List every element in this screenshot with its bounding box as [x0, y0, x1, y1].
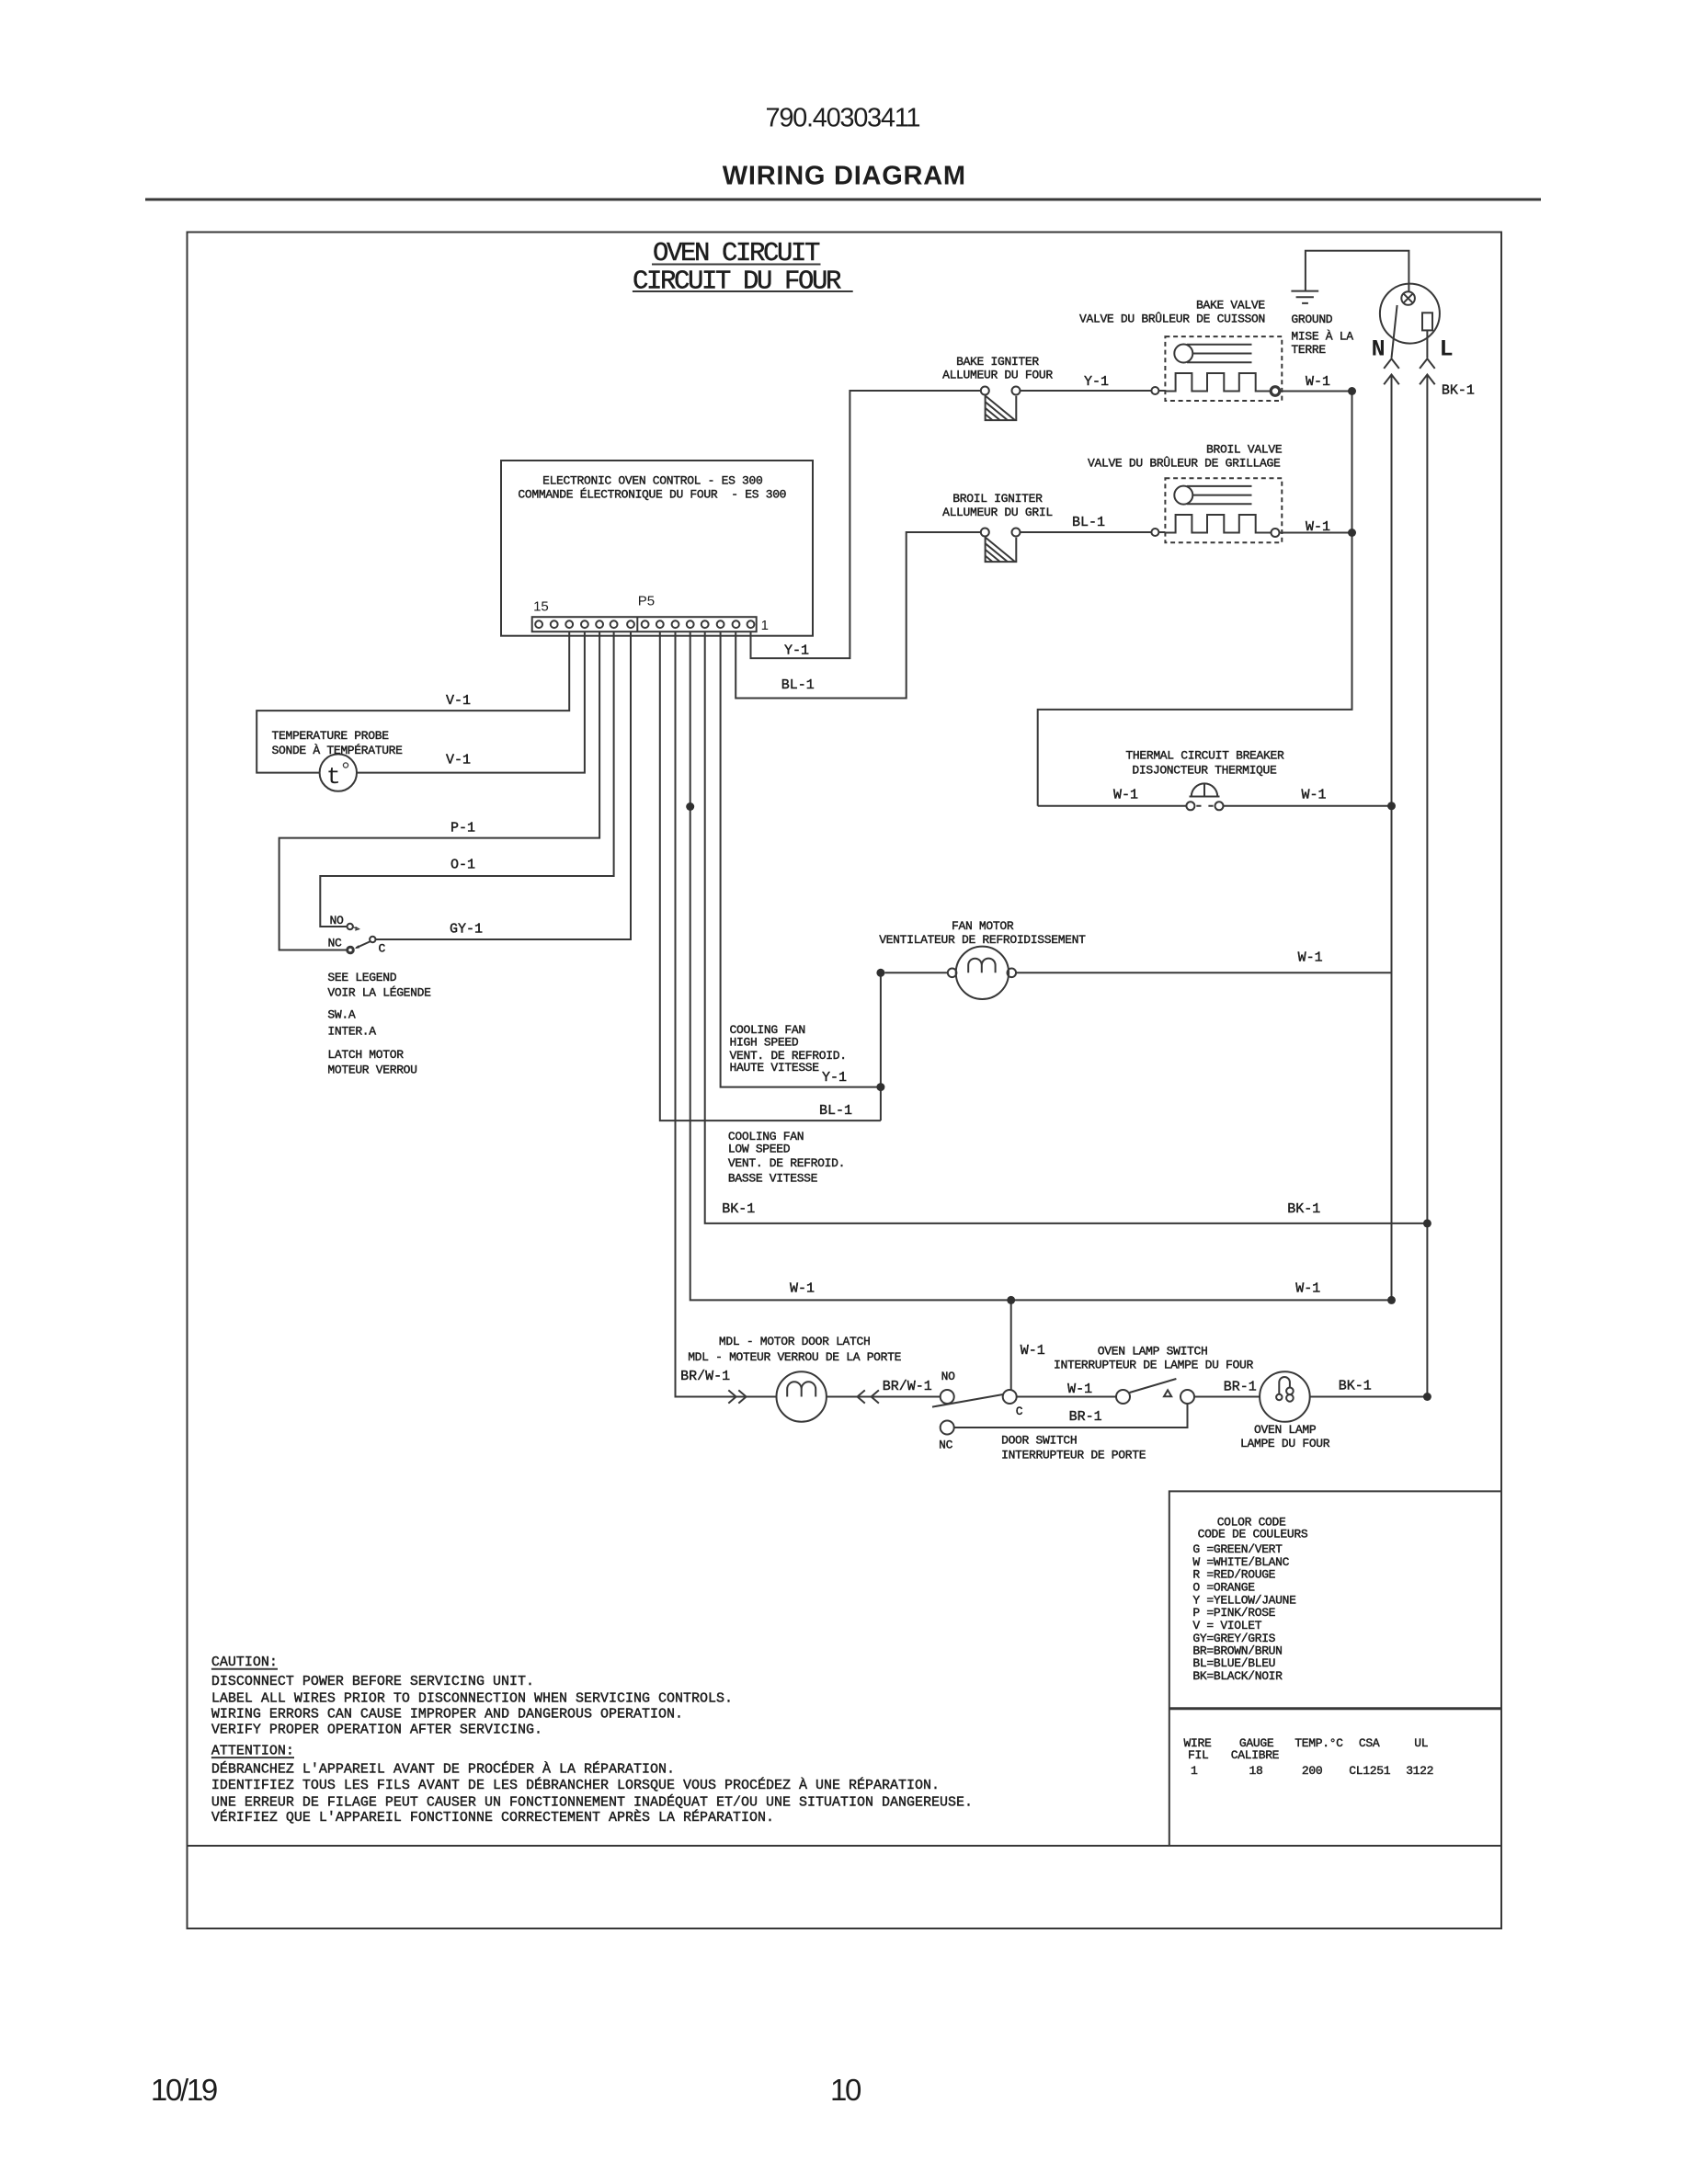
- svg-text:GROUND: GROUND: [1291, 313, 1332, 326]
- svg-text:DISCONNECT POWER BEFORE SERVIC: DISCONNECT POWER BEFORE SERVICING UNIT.: [211, 1674, 534, 1689]
- svg-text:BL-1: BL-1: [819, 1103, 852, 1119]
- svg-text:C: C: [379, 942, 386, 956]
- svg-text:OVEN LAMP SWITCH: OVEN LAMP SWITCH: [1098, 1344, 1208, 1358]
- svg-text:THERMAL CIRCUIT BREAKER: THERMAL CIRCUIT BREAKER: [1125, 749, 1284, 763]
- svg-text:UL: UL: [1414, 1736, 1428, 1750]
- svg-text:VALVE DU BRÛLEUR DE GRILLAGE: VALVE DU BRÛLEUR DE GRILLAGE: [1088, 457, 1281, 471]
- svg-text:CSA: CSA: [1359, 1736, 1380, 1750]
- svg-text:SEE LEGEND: SEE LEGEND: [327, 971, 396, 984]
- svg-text:WIRING DIAGRAM: WIRING DIAGRAM: [723, 161, 966, 190]
- svg-text:W-1: W-1: [1302, 787, 1327, 802]
- svg-text:ALLUMEUR DU GRIL: ALLUMEUR DU GRIL: [942, 506, 1053, 519]
- svg-text:W-1: W-1: [1295, 1281, 1320, 1297]
- svg-text:V-1: V-1: [446, 693, 471, 709]
- svg-text:DOOR SWITCH: DOOR SWITCH: [1001, 1434, 1077, 1448]
- svg-text:OVEN LAMP: OVEN LAMP: [1254, 1423, 1317, 1437]
- svg-text:BR-1: BR-1: [1069, 1409, 1102, 1425]
- svg-text:FAN MOTOR: FAN MOTOR: [952, 919, 1014, 933]
- svg-text:DISJONCTEUR THERMIQUE: DISJONCTEUR THERMIQUE: [1132, 764, 1277, 778]
- svg-text:W-1: W-1: [1021, 1343, 1045, 1359]
- svg-text:LAMPE DU FOUR: LAMPE DU FOUR: [1240, 1437, 1330, 1450]
- svg-text:VOIR LA LÉGENDE: VOIR LA LÉGENDE: [327, 985, 431, 999]
- svg-text:DÉBRANCHEZ L'APPAREIL AVANT DE: DÉBRANCHEZ L'APPAREIL AVANT DE PROCÉDER …: [211, 1760, 675, 1777]
- svg-text:BK-1: BK-1: [1339, 1379, 1372, 1394]
- svg-text:BK=BLACK/NOIR: BK=BLACK/NOIR: [1192, 1669, 1283, 1683]
- svg-text:CL1251: CL1251: [1349, 1764, 1390, 1778]
- svg-text:INTERRUPTEUR DE LAMPE DU FOUR: INTERRUPTEUR DE LAMPE DU FOUR: [1054, 1358, 1253, 1371]
- svg-text:INTER.A: INTER.A: [327, 1025, 376, 1039]
- svg-text:N: N: [1372, 336, 1386, 362]
- svg-text:W-1: W-1: [1306, 519, 1330, 535]
- svg-text:MDL - MOTEUR VERROU DE LA PORT: MDL - MOTEUR VERROU DE LA PORTE: [688, 1350, 901, 1364]
- svg-text:BR-1: BR-1: [1224, 1380, 1257, 1395]
- svg-text:HAUTE VITESSE: HAUTE VITESSE: [730, 1061, 820, 1075]
- svg-text:10: 10: [830, 2073, 861, 2107]
- svg-text:ALLUMEUR DU FOUR: ALLUMEUR DU FOUR: [942, 369, 1053, 382]
- svg-text:W-1: W-1: [1298, 950, 1323, 966]
- svg-text:Y-1: Y-1: [784, 643, 809, 659]
- svg-text:NC: NC: [328, 937, 342, 950]
- svg-text:BAKE IGNITER: BAKE IGNITER: [956, 355, 1039, 369]
- svg-text:BROIL VALVE: BROIL VALVE: [1206, 443, 1283, 457]
- svg-text:R =RED/ROUGE: R =RED/ROUGE: [1192, 1568, 1275, 1582]
- svg-text:t: t: [326, 763, 341, 791]
- svg-text:V = VIOLET: V = VIOLET: [1192, 1619, 1261, 1632]
- svg-text:10/19: 10/19: [151, 2073, 217, 2107]
- svg-text:IDENTIFIEZ TOUS LES FILS AVANT: IDENTIFIEZ TOUS LES FILS AVANT DE LES DÉ…: [211, 1777, 940, 1793]
- svg-text:ELECTRONIC OVEN CONTROL - ES 3: ELECTRONIC OVEN CONTROL - ES 300: [542, 474, 762, 488]
- svg-text:P =PINK/ROSE: P =PINK/ROSE: [1192, 1606, 1275, 1620]
- svg-text:FIL: FIL: [1188, 1748, 1208, 1762]
- svg-text:MOTEUR VERROU: MOTEUR VERROU: [327, 1064, 416, 1077]
- svg-text:W-1: W-1: [1113, 787, 1138, 802]
- svg-text:VENTILATEUR DE REFROIDISSEMENT: VENTILATEUR DE REFROIDISSEMENT: [879, 933, 1086, 947]
- svg-text:BK-1: BK-1: [722, 1201, 755, 1217]
- svg-text:WIRING ERRORS CAN CAUSE IMPROP: WIRING ERRORS CAN CAUSE IMPROPER AND DAN…: [211, 1706, 683, 1722]
- svg-text:UNE ERREUR DE FILAGE PEUT CAUS: UNE ERREUR DE FILAGE PEUT CAUSER UN FONC…: [211, 1793, 973, 1810]
- svg-text:CAUTION:: CAUTION:: [211, 1655, 278, 1670]
- svg-text:18: 18: [1249, 1764, 1263, 1778]
- svg-text:1: 1: [761, 618, 769, 633]
- svg-text:C: C: [1016, 1405, 1023, 1418]
- svg-text:G =GREEN/VERT: G =GREEN/VERT: [1192, 1542, 1283, 1556]
- svg-text:INTERRUPTEUR DE PORTE: INTERRUPTEUR DE PORTE: [1001, 1449, 1146, 1462]
- svg-text:BR/W-1: BR/W-1: [883, 1379, 932, 1394]
- svg-text:V-1: V-1: [446, 752, 471, 768]
- svg-text:GY-1: GY-1: [450, 922, 483, 938]
- svg-text:BK-1: BK-1: [1287, 1201, 1320, 1217]
- svg-text:TEMPERATURE PROBE: TEMPERATURE PROBE: [272, 729, 390, 743]
- svg-text:200: 200: [1302, 1764, 1322, 1778]
- svg-text:W-1: W-1: [790, 1281, 815, 1297]
- svg-text:COMMANDE ÉLECTRONIQUE DU FOUR: COMMANDE ÉLECTRONIQUE DU FOUR - ES 300: [518, 488, 786, 502]
- svg-text:CIRCUIT DU FOUR: CIRCUIT DU FOUR: [633, 267, 841, 297]
- svg-text:W-1: W-1: [1067, 1382, 1092, 1397]
- svg-text:P5: P5: [638, 594, 655, 609]
- svg-text:Y-1: Y-1: [1084, 374, 1109, 390]
- svg-text:NO: NO: [330, 914, 344, 927]
- svg-text:OVEN CIRCUIT: OVEN CIRCUIT: [653, 238, 820, 268]
- svg-text:LABEL ALL WIRES PRIOR TO DISCO: LABEL ALL WIRES PRIOR TO DISCONNECTION W…: [211, 1690, 733, 1706]
- svg-text:MDL - MOTOR DOOR LATCH: MDL - MOTOR DOOR LATCH: [719, 1335, 871, 1348]
- svg-text:15: 15: [533, 599, 549, 615]
- svg-text:VALVE DU BRÛLEUR DE CUISSON: VALVE DU BRÛLEUR DE CUISSON: [1079, 313, 1265, 326]
- svg-text:Y-1: Y-1: [822, 1070, 847, 1086]
- svg-text:CODE DE COULEURS: CODE DE COULEURS: [1198, 1528, 1308, 1541]
- svg-text:3122: 3122: [1406, 1764, 1433, 1778]
- svg-text:NO: NO: [941, 1370, 955, 1383]
- svg-text:P-1: P-1: [451, 821, 475, 836]
- svg-text:VENT. DE REFROID.: VENT. DE REFROID.: [728, 1156, 845, 1170]
- svg-text:TEMP.°C: TEMP.°C: [1295, 1736, 1343, 1750]
- svg-text:BR=BROWN/BRUN: BR=BROWN/BRUN: [1192, 1644, 1282, 1657]
- svg-text:VERIFY PROPER OPERATION AFTER: VERIFY PROPER OPERATION AFTER SERVICING.: [211, 1723, 542, 1738]
- svg-text:1: 1: [1191, 1764, 1198, 1778]
- svg-text:L: L: [1440, 336, 1454, 362]
- svg-text:LATCH MOTOR: LATCH MOTOR: [327, 1048, 404, 1062]
- svg-text:790.40303411: 790.40303411: [766, 103, 920, 132]
- svg-text:W-1: W-1: [1306, 374, 1330, 390]
- svg-text:SONDE À TEMPÉRATURE: SONDE À TEMPÉRATURE: [272, 744, 404, 757]
- svg-text:O-1: O-1: [451, 857, 475, 872]
- svg-text:SW.A: SW.A: [327, 1008, 355, 1022]
- svg-text:BROIL IGNITER: BROIL IGNITER: [952, 492, 1043, 506]
- svg-text:MISE À LA: MISE À LA: [1291, 330, 1353, 344]
- svg-text:LOW SPEED: LOW SPEED: [728, 1143, 791, 1156]
- svg-text:BL-1: BL-1: [1072, 515, 1105, 530]
- svg-text:NC: NC: [939, 1439, 952, 1452]
- svg-text:VÉRIFIEZ QUE L'APPAREIL FONCTI: VÉRIFIEZ QUE L'APPAREIL FONCTIONNE CORRE…: [211, 1809, 774, 1826]
- svg-text:BASSE VITESSE: BASSE VITESSE: [728, 1171, 818, 1185]
- svg-text:CALIBRE: CALIBRE: [1231, 1748, 1280, 1762]
- svg-text:BL-1: BL-1: [781, 677, 815, 693]
- svg-text:HIGH SPEED: HIGH SPEED: [730, 1035, 799, 1049]
- svg-text:BR/W-1: BR/W-1: [680, 1369, 730, 1384]
- svg-text:TERRE: TERRE: [1291, 343, 1326, 357]
- svg-text:ATTENTION:: ATTENTION:: [211, 1744, 294, 1759]
- svg-text:BK-1: BK-1: [1442, 383, 1475, 399]
- svg-text:BAKE VALVE: BAKE VALVE: [1196, 298, 1265, 312]
